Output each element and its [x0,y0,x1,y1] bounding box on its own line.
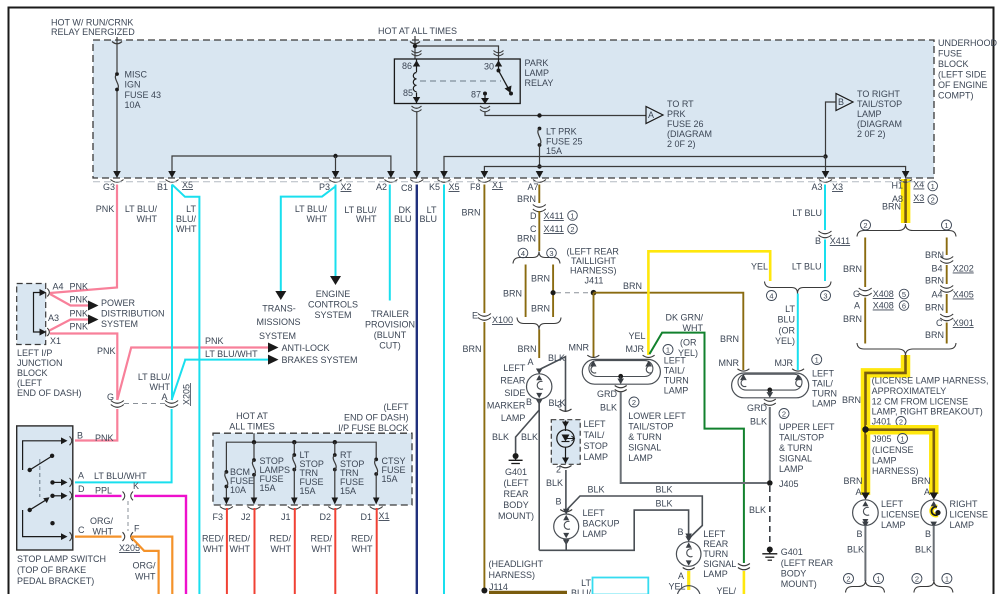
svg-text:(OR: (OR [779,326,796,336]
svg-text:X411: X411 [544,224,564,234]
svg-text:RED/: RED/ [310,534,332,544]
cyan component box at bottom [593,578,649,594]
svg-text:BLOCK: BLOCK [938,59,969,69]
wire LT BLU X411 down to merge brace [824,240,826,282]
label LEFT TAIL/ STOP LAMP [584,419,609,462]
svg-text:PNK: PNK [96,204,115,214]
wire LT BLU A3 down to X411 B [824,185,826,231]
wire ORG/WHT C to F crossing [75,535,122,537]
svg-text:A: A [527,357,533,367]
lamp LEFT LICENSE LAMP [853,500,879,526]
svg-text:4: 4 [769,292,773,301]
svg-text:RELAY ENERGIZED: RELAY ENERGIZED [51,27,135,37]
wire DK BLU C8 down [416,185,418,594]
lamp2 ground arrow [769,390,771,393]
svg-text:B: B [77,431,83,441]
label LT BLU (OR YEL) stacked [775,304,796,346]
wire BRN J401 branch right highlighted to right license lamp [866,430,934,494]
ip block pin labels [212,511,389,522]
svg-text:LT BLU/WHT: LT BLU/WHT [205,349,258,359]
lamp UPPER LEFT TAIL (stadium outline) lamp2 [732,373,809,398]
ghost echo of fuse block bottom border [93,181,934,183]
svg-text:WHT: WHT [176,224,197,234]
svg-text:WHT: WHT [312,544,333,554]
wire DK GRN/WHT from lamp1 MJR [650,333,744,563]
svg-text:C8: C8 [401,183,413,193]
svg-text:LICENSE: LICENSE [881,510,920,520]
X205 crossing G [111,401,124,408]
svg-text:10A: 10A [230,485,246,495]
svg-text:B: B [856,529,862,539]
svg-text:BRN: BRN [531,304,550,314]
svg-text:UNDERHOOD: UNDERHOOD [938,38,998,48]
svg-text:LEFT: LEFT [503,363,526,373]
svg-text:F8: F8 [470,182,481,192]
svg-text:LEFT: LEFT [583,508,606,518]
svg-text:WHT: WHT [137,214,158,224]
svg-text:BRN: BRN [517,344,536,354]
svg-text:LICENSE: LICENSE [950,510,989,520]
svg-text:HOT AT ALL TIMES: HOT AT ALL TIMES [378,26,457,36]
svg-text:WHT: WHT [271,544,292,554]
svg-text:SIGNAL: SIGNAL [703,559,736,569]
svg-text:C: C [78,525,85,535]
svg-text:(BLUNT: (BLUNT [374,330,407,340]
svg-text:A7: A7 [527,182,538,192]
wire BRN J411 down to lamp1 MNR [593,293,595,357]
svg-text:BLOCK: BLOCK [17,368,48,378]
svg-text:I/P FUSE BLOCK: I/P FUSE BLOCK [338,423,408,433]
svg-text:(TOP OF BRAKE: (TOP OF BRAKE [17,565,86,575]
turn lamp bottom arcs [683,568,695,570]
svg-text:A: A [855,487,861,497]
label ORG/ WHT (lower) [132,561,156,582]
svg-text:TAIL/STOP: TAIL/STOP [857,99,902,109]
svg-text:(LICENSE LAMP HARNESS,: (LICENSE LAMP HARNESS, [872,376,989,386]
svg-text:85: 85 [403,88,413,98]
label POWER DISTRIBUTION SYSTEM [101,298,165,329]
svg-text:(OR: (OR [680,338,697,348]
svg-text:RED/: RED/ [228,534,250,544]
svg-text:BRN: BRN [517,234,536,244]
wire HOT W/ RUN-CRNK feed down to fuse 43 [116,37,118,72]
svg-text:A2: A2 [376,182,387,192]
label HOT W/ RUN/CRNK RELAY ENERGIZED [51,18,135,38]
svg-text:OF ENGINE: OF ENGINE [938,80,988,90]
label LEFT TAIL/TURN LAMP (lamp2) [812,369,837,409]
lamp1 pin arrows [590,361,597,367]
svg-text:2: 2 [931,196,935,205]
svg-text:J405: J405 [779,479,799,489]
svg-text:(LICENSE: (LICENSE [872,445,914,455]
label G401 (LEFT REAR BODY MOUNT) left [498,467,534,521]
bus wire K5-A3 [444,157,826,172]
svg-text:J114: J114 [489,582,508,592]
turn lamp top pin arrow [685,536,692,542]
side marker pin B arrow [536,399,543,405]
svg-text:X202: X202 [953,264,974,274]
svg-text:1: 1 [666,346,670,355]
arrowheads into license lamps [861,493,870,500]
wire PNK G to ANTI-LOCK arrow [117,348,268,401]
svg-text:BLK: BLK [600,403,617,413]
bulb lead arrows (right license) [931,501,937,506]
wire BRN right branch seg4 [946,323,948,344]
svg-text:X1: X1 [379,511,390,521]
wire RED/WHT J1 down [294,508,296,594]
wire LT BLU (OR YEL) to lamp2 MJR [797,294,799,371]
side marker filament [537,381,543,389]
wire ORG/WHT branch 2 (diagonal then down) [131,537,159,594]
svg-text:(LEFT: (LEFT [17,378,43,388]
relay switch pin 30 post [498,59,500,70]
svg-text:A: A [78,471,84,481]
svg-text:LAMP: LAMP [584,452,609,462]
relay pin arcs above box [412,51,422,56]
svg-text:LT: LT [581,578,591,588]
svg-text:WHT: WHT [683,323,704,333]
svg-text:(LEFT: (LEFT [503,478,529,488]
svg-text:10A: 10A [125,100,141,110]
svg-text:BLU: BLU [394,214,412,224]
svg-text:X5: X5 [449,182,460,192]
svg-text:PRK: PRK [667,109,686,119]
underhood fuse block label [938,38,998,101]
circled 1 at X4 [928,181,938,191]
svg-text:ALL TIMES: ALL TIMES [229,422,275,432]
svg-text:MOUNT): MOUNT) [781,579,817,589]
svg-text:PNK: PNK [70,295,89,305]
svg-text:FUSE: FUSE [938,49,962,59]
triangle connector A TO RT PRK [646,107,663,124]
wire PNK A3 to second arrow [50,320,89,331]
LED symbol inside tail/stop lamp [557,421,574,464]
svg-text:WHT: WHT [150,382,171,392]
svg-text:TRAILER: TRAILER [371,309,410,319]
svg-text:DISTRIBUTION: DISTRIBUTION [101,309,165,319]
svg-text:12 CM FROM LICENSE: 12 CM FROM LICENSE [872,397,969,407]
svg-text:PNK: PNK [95,433,114,443]
junction block pin arrows [40,289,47,296]
circled 2 (lamp1) [629,397,639,407]
svg-text:2: 2 [863,221,867,230]
X405 crossing A4 [940,286,953,293]
wire BRN merged highlighted to J401 [866,355,906,495]
wire BRN H1/A8 highlighted (yellow) down to split brace [901,179,911,223]
wire BRN X100 down to J114 [483,322,485,589]
wire LT BLU/WHT P3 to ENGINE arrow [335,185,337,279]
label G401 (LEFT REAR BODY MOUNT) right [781,547,834,589]
svg-text:X205: X205 [182,384,192,405]
svg-text:LEFT: LEFT [703,529,726,539]
dashed ground lead to G401 [769,486,771,544]
switch blade 1 [28,468,32,472]
wire PPL D to K crossing and down [75,496,186,594]
X411 crossing D [533,205,546,208]
fuse RT STOP TRN FUSE 15A [334,442,336,455]
svg-text:REAR: REAR [500,376,526,386]
svg-text:MISSIONS: MISSIONS [256,317,300,327]
svg-text:LAMP: LAMP [703,569,728,579]
system arrow POWER DISTRIBUTION [88,301,99,311]
wire RED/WHT J2 down [254,508,256,594]
svg-text:X411: X411 [830,236,850,246]
wire BRN branch 3 (right) [552,265,554,318]
svg-text:X411: X411 [544,211,564,221]
wire BLK left license down [864,526,866,582]
svg-text:HARNESS): HARNESS) [489,570,536,580]
svg-text:PEDAL BRACKET): PEDAL BRACKET) [17,576,94,586]
tail/stop lamp pin 2 arcs [560,466,572,468]
X202 crossing B4 [940,257,953,264]
svg-text:(LEFT: (LEFT [383,402,409,412]
svg-text:JUNCTION: JUNCTION [17,358,63,368]
svg-text:CONTROLS: CONTROLS [308,300,358,310]
wire BRN right branch seg3 [946,294,948,313]
junction block internal bracket [34,293,45,333]
svg-text:WHT: WHT [307,214,328,224]
bus wire F8-H1 [484,167,905,172]
wire BRN right branch seg2 [946,265,948,284]
svg-text:LEFT: LEFT [812,369,835,379]
svg-text:WHT: WHT [93,527,114,537]
lamp1 bottom junction dot [618,374,623,379]
svg-text:B: B [677,527,683,537]
svg-text:BRN: BRN [720,334,739,344]
svg-text:D: D [530,211,537,221]
system arrow (second) [88,315,99,325]
relay switch blade [499,71,511,93]
svg-text:B4: B4 [931,264,942,274]
svg-text:BRN: BRN [843,264,862,274]
svg-text:G: G [853,289,860,299]
ip block feed wire [253,433,255,442]
X205 dashed vertical K to F [127,501,129,531]
system arrow ANTI-LOCK [268,343,279,353]
svg-text:B: B [838,97,844,107]
junction dot J405 [767,480,773,486]
switch pin arcs [70,436,72,541]
relay coil arrowheads [413,60,420,66]
svg-text:2: 2 [846,575,850,584]
svg-text:BRN: BRN [531,274,550,284]
svg-text:LAMP: LAMP [628,453,653,463]
wire BRN merged down to side marker A [538,330,540,359]
svg-text:LEFT: LEFT [881,499,904,509]
svg-text:FUSE 25: FUSE 25 [546,137,583,147]
svg-text:& TURN: & TURN [779,443,812,453]
svg-text:YEL: YEL [628,331,645,341]
labels RED/WHT x5 [202,534,373,555]
svg-text:BLU/: BLU/ [176,214,197,224]
svg-text:5: 5 [902,290,906,299]
svg-text:MJR: MJR [775,358,794,368]
circled 2 (lamp2) [779,409,789,419]
svg-text:ORG/: ORG/ [90,516,114,526]
label UPPER LEFT TAIL/STOP & TURN SIGNAL LAMP [779,422,835,474]
svg-text:END OF DASH): END OF DASH) [17,388,82,398]
svg-text:TAIL/STOP: TAIL/STOP [779,433,824,443]
lamp1 filament right [646,366,651,373]
svg-text:SYSTEM: SYSTEM [259,331,296,341]
junction dot on branch 3 [551,290,556,295]
relay U1 PARK LAMP RELAY box [394,59,520,104]
svg-text:A: A [854,301,860,311]
svg-text:LT BLU/: LT BLU/ [295,204,328,214]
svg-text:FUSE 26: FUSE 26 [667,119,704,129]
svg-text:LAMP: LAMP [583,529,608,539]
partial lamp circle at bottom edge [678,586,700,594]
svg-text:BLU: BLU [419,214,437,224]
svg-text:RELAY: RELAY [525,78,554,88]
wire ORG/WHT branch 1 (right then down) [131,537,172,594]
svg-text:LAMP: LAMP [950,520,975,530]
svg-text:TAIL/STOP: TAIL/STOP [628,422,673,432]
triangle connector B TO RIGHT TAIL/STOP [836,94,853,111]
arrowhead into turn lamp pin B (from bus) [685,534,692,540]
circled 4 [518,248,528,258]
wire BLK side marker A to tail/stop pin 3 [541,357,566,412]
svg-text:X3: X3 [913,193,924,203]
wire P3 branch to TRANS arrow [281,187,336,294]
junction dot J401 [862,426,868,432]
svg-text:MNR: MNR [719,358,740,368]
wire LT BLU K5 down [443,185,445,594]
svg-text:BRN: BRN [462,344,481,354]
svg-text:TURN: TURN [812,389,837,399]
svg-text:BODY: BODY [503,500,529,510]
svg-text:SIGNAL: SIGNAL [779,454,812,464]
ip block pin arcs [220,507,383,510]
switch contact to pin A [50,480,54,484]
svg-text:G3: G3 [103,182,115,192]
circled 3 (merge) [821,291,831,301]
ip block internal bus [226,442,376,471]
svg-text:X4: X4 [913,180,924,190]
svg-text:A: A [161,392,167,402]
svg-text:PARK: PARK [525,58,549,68]
X205 crossing F [123,532,134,541]
svg-text:LT BLU/: LT BLU/ [125,204,158,214]
svg-text:RED/: RED/ [351,534,373,544]
svg-text:LAMP: LAMP [872,456,897,466]
svg-text:2: 2 [632,398,636,407]
breakout arc at top border x415 [410,42,420,44]
svg-text:LT BLU/WHT: LT BLU/WHT [94,471,147,481]
label (LICENSE LAMP HARNESS, APPROXIMATELY 12 CM FROM LICENSE LAMP, RIGHT BREAKOUT) J401 [872,376,989,427]
wire LT BLU/WHT B1 down to X205 A [171,185,173,401]
svg-text:RIGHT: RIGHT [950,499,979,509]
svg-text:BRN: BRN [623,281,642,291]
svg-text:B1: B1 [157,182,168,192]
svg-text:BLK: BLK [750,417,767,427]
svg-text:2 0F 2): 2 0F 2) [667,139,696,149]
label TO RIGHT TAIL/STOP LAMP [857,89,902,139]
svg-text:END OF DASH): END OF DASH) [344,413,409,423]
svg-text:1: 1 [900,435,904,444]
svg-text:LT BLU/: LT BLU/ [138,372,171,382]
svg-text:BRN: BRN [517,194,536,204]
svg-text:BRN: BRN [882,202,901,212]
wire BRN right branch down [946,238,948,256]
harness merge brace (A7 branches) [517,318,561,330]
svg-text:PNK: PNK [97,346,116,356]
fuse CTSY FUSE 15A [374,458,378,462]
svg-text:(LEFT REAR: (LEFT REAR [781,558,834,568]
label (HEADLIGHT HARNESS) J114 [489,559,544,592]
svg-text:F3: F3 [212,512,223,522]
label LT PRK FUSE 25 15A [546,127,583,157]
svg-text:LT PRK: LT PRK [546,127,577,137]
bulb lead arrows (left license) [862,501,868,524]
svg-text:GRD: GRD [747,403,768,413]
wire BLK side marker B to G401 [516,400,540,453]
svg-text:POWER: POWER [101,298,136,308]
circled 2 (J401) [896,417,906,427]
svg-text:BLK: BLK [655,485,672,495]
wire relay 87 to A-triangle and fuse 25 [485,112,646,116]
svg-text:30: 30 [484,62,494,72]
svg-text:LAMP: LAMP [881,520,906,530]
svg-text:LT BLU: LT BLU [792,262,822,272]
svg-text:X408: X408 [873,289,894,299]
svg-text:TURN: TURN [664,376,689,386]
svg-text:3: 3 [557,400,562,410]
svg-text:TAIL/: TAIL/ [584,430,605,440]
svg-text:SIDE: SIDE [504,388,525,398]
svg-text:BLK: BLK [492,432,509,442]
svg-text:WHT: WHT [203,544,224,554]
fuse MISC IGN FUSE 43 10A [115,74,118,90]
svg-text:J1: J1 [281,512,291,522]
wire LT BLU/WHT A2 trailer provision (blunt cut) [389,185,391,301]
svg-text:LT BLU: LT BLU [792,208,822,218]
svg-text:(LEFT REAR: (LEFT REAR [567,247,620,257]
svg-text:PPL: PPL [95,486,112,496]
svg-text:YEL: YEL [751,262,768,272]
X100 crossing E [478,314,491,321]
svg-text:LEFT: LEFT [584,419,607,429]
wire RED/WHT D2 down [334,508,336,594]
svg-text:RED/: RED/ [269,534,291,544]
junction dot fuse 25 tap [537,113,541,117]
svg-text:X901: X901 [953,318,974,328]
svg-text:UPPER LEFT: UPPER LEFT [779,422,835,432]
svg-text:(HEADLIGHT: (HEADLIGHT [489,559,544,569]
wire BRN A7 to split brace [538,211,540,251]
switch linkage dashed [39,459,41,497]
junction dot J411 [591,290,597,296]
svg-text:(LEFT SIDE: (LEFT SIDE [938,70,986,80]
svg-text:BLK: BLK [847,545,864,555]
svg-text:1: 1 [931,182,935,191]
lamp LEFT REAR TURN SIGNAL LAMP circle [676,542,701,567]
svg-text:D2: D2 [319,512,331,522]
wire branch to relay pin 30 [415,46,499,59]
svg-text:TAIL/: TAIL/ [664,366,685,376]
label LEFT BACKUP LAMP [583,508,620,539]
wire BLK lamp1 ground to J405 [621,392,767,483]
svg-text:LAMP: LAMP [857,109,882,119]
wire LT BLU/WHT branch to BRAKES arrow [172,360,268,400]
lamp LEFT BACKUP LAMP circle [554,514,579,539]
svg-text:A: A [924,487,930,497]
lamp1 filament left [591,366,596,373]
svg-text:3: 3 [549,249,553,258]
X408 crossing G/A [859,288,872,296]
wire BLK right license down [933,526,935,582]
lamp LEFT TAIL/TURN LAMP 1 (stadium outline) [582,359,660,384]
